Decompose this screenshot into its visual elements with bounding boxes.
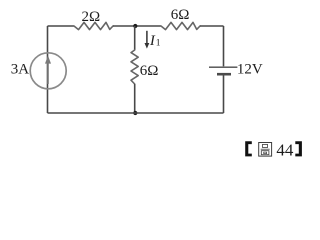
wire middle branch upper (134, 26, 136, 50)
svg-text:6Ω: 6Ω (171, 7, 190, 23)
svg-text:6Ω: 6Ω (140, 63, 159, 79)
svg-text:44: 44 (276, 141, 294, 160)
resistor 2ohm zigzag (74, 22, 113, 29)
svg-text:2Ω: 2Ω (82, 9, 101, 25)
resistor 6ohm top zigzag (161, 22, 200, 29)
current source circle (30, 53, 66, 89)
resistor 6ohm middle vertical zigzag (131, 50, 138, 84)
caption left bracket (245, 141, 252, 156)
caption glyph tu (figure) (259, 143, 272, 157)
node B bottom junction dot (133, 111, 137, 115)
battery V1 short plate (217, 73, 231, 76)
node A top junction dot (133, 24, 137, 28)
svg-text:12V: 12V (237, 62, 263, 78)
caption right bracket (295, 141, 302, 156)
svg-text:3A: 3A (11, 61, 30, 77)
current source arrow (45, 56, 51, 85)
wire right vertical lower (223, 76, 225, 114)
wire top-left segment (48, 25, 75, 27)
wire bottom (48, 112, 224, 114)
wire right vertical upper (223, 26, 225, 66)
wire top-right segment (200, 25, 224, 27)
wire top-middle segment (113, 25, 161, 27)
wire middle branch lower (134, 84, 136, 113)
svg-text:1: 1 (156, 39, 161, 49)
current arrow I1 (145, 31, 150, 49)
battery V1 long plate (209, 66, 237, 68)
wire left vertical (47, 26, 49, 113)
